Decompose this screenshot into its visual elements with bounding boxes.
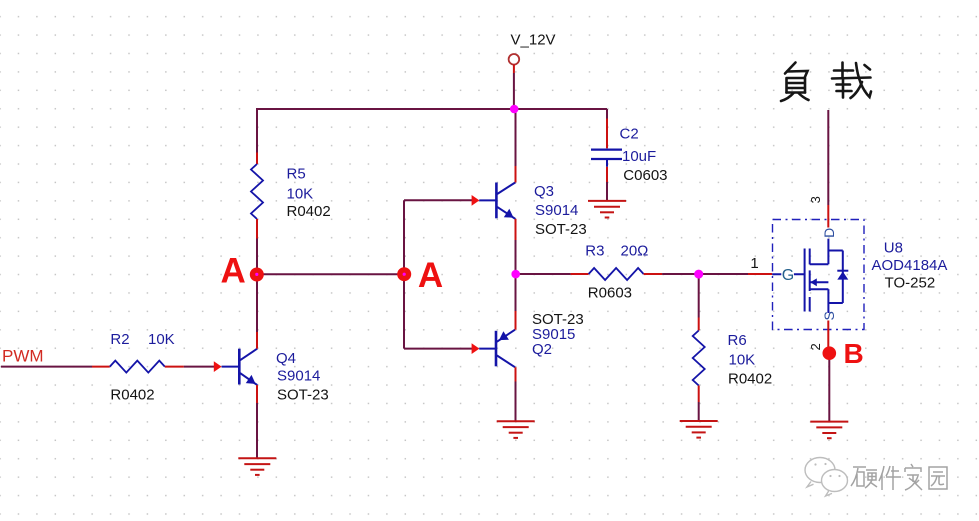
transistor Q3 symbol [479,182,515,219]
wire PWM input [1,366,92,368]
svg-text:1: 1 [750,255,758,272]
wire node A to Q4 collector [256,275,258,333]
svg-text:G: G [782,267,794,284]
svg-text:R2: R2 [110,331,129,348]
svg-text:SOT-23: SOT-23 [277,387,329,404]
resistor R6 top pin [698,318,700,331]
resistor R6 body [693,331,705,386]
node B dot [823,346,837,360]
svg-text:AOD4184A: AOD4184A [872,257,948,274]
pin 2 source pin [827,321,829,354]
resistor R5 top pin [256,153,258,165]
resistor R2 body [110,361,165,373]
svg-text:Q2: Q2 [532,341,552,358]
svg-text:PWM: PWM [2,346,44,365]
svg-text:C2: C2 [620,126,639,143]
capacitor C2 bottom pin [606,167,608,182]
resistor R2 right pin [165,366,184,368]
ground under B [810,422,848,439]
svg-text:R5: R5 [287,165,306,182]
watermark logo bubbles [805,458,848,497]
svg-text:10uF: 10uF [622,148,656,165]
wire node B to ground [828,353,830,421]
wire top bus [256,108,607,110]
svg-text:R6: R6 [728,332,747,349]
svg-text:R3: R3 [585,243,604,260]
wire V_12V stem [513,73,515,109]
wire bus to R5 [256,109,258,153]
mosfet U8 drain letter D [821,228,837,238]
svg-text:S: S [821,311,837,320]
mosfet U8 symbol [805,239,849,313]
svg-text:A: A [418,256,443,295]
svg-text:R0402: R0402 [728,370,772,387]
resistor R2 left pin [92,366,110,368]
junction dot mid node [511,270,520,279]
svg-text:10K: 10K [287,186,314,203]
svg-text:A: A [221,252,246,291]
wire bus to Q3 collector [515,109,517,166]
wire gate node down to R6 [698,274,700,318]
wire R5 to node A [256,239,258,275]
power port V_12V pin [513,65,515,73]
wire C2 to ground [606,182,608,201]
svg-text:U8: U8 [884,240,903,257]
ground under Q2 [497,421,535,438]
resistor R5 bottom pin [256,219,258,239]
wire node A vertical [403,200,405,348]
load text 载 [832,63,871,99]
wire mid node to R3 [516,273,571,275]
power port V_12V circle [509,54,520,65]
transistor Q4 symbol [222,349,258,386]
svg-text:SOT-23: SOT-23 [535,221,587,238]
junction dot V_12V/bus [510,105,519,114]
transistor Q2 collector pin [515,367,517,381]
transistor Q4 collector pin [256,332,258,349]
ground under R6 [680,421,718,438]
input arrow at Q4 base [214,361,222,372]
wire mid node to Q2 emitter [515,274,517,311]
wire node A rail [257,273,404,275]
svg-text:S9014: S9014 [535,202,578,219]
capacitor C2 plates [591,150,622,167]
svg-text:TO-252: TO-252 [885,275,936,292]
watermark text 硬件家园 [851,464,947,490]
pin 2 number [808,343,823,350]
svg-text:V_12V: V_12V [511,32,556,49]
svg-text:B: B [844,338,864,369]
ground under Q4 [238,458,276,475]
wire to Q3 base [404,199,472,201]
resistor R6 bottom pin [698,386,700,403]
wire bus corner to C2 [606,109,608,119]
svg-text:S9014: S9014 [277,368,320,385]
pin 1 gate pin lead [748,273,772,275]
capacitor C2 top pin [606,119,608,149]
svg-text:R0402: R0402 [110,386,154,403]
resistor R3 body [589,268,644,280]
svg-text:10K: 10K [148,331,175,348]
pin 3 number [808,196,823,203]
transistor Q2 symbol [479,330,515,368]
node A right dot [397,267,411,281]
svg-text:R0402: R0402 [287,203,331,220]
svg-text:D: D [821,228,837,238]
svg-text:Q3: Q3 [534,183,554,200]
transistor Q3 emitter pin [515,219,517,240]
junction dot gate node [694,270,703,279]
pin 3 drain pin [827,205,829,228]
resistor R3 right pin [644,273,663,275]
wire Q4 emitter to ground [256,403,258,458]
transistor Q3 collector pin [515,166,517,182]
input arrow at Q2 base [472,343,480,354]
svg-text:3: 3 [808,196,823,203]
svg-text:2: 2 [808,343,823,350]
wire R3 to gate node [662,273,699,275]
wire Q3 emitter to mid node [515,240,517,274]
load text 负 [781,63,809,102]
mosfet U8 gate letter G [772,273,804,275]
wire load to U8 drain [827,110,829,205]
mosfet U8 source letter S [821,311,837,320]
node A left dot [250,268,264,282]
resistor R5 body [251,164,263,219]
transistor Q4 emitter pin [256,385,258,403]
wire to Q2 base [404,348,472,350]
wire R2 to Q4 base [184,366,214,368]
ground under C2 [588,201,626,218]
transistor Q2 emitter pin [515,311,517,330]
wire gate node to U8 gate pin [699,273,748,275]
wire Q2 collector to ground [515,382,517,422]
input arrow at Q3 base [472,195,480,206]
wire R6 to ground [698,402,700,421]
svg-text:R0603: R0603 [588,285,632,302]
svg-text:10K: 10K [729,351,756,368]
svg-text:Q4: Q4 [276,350,296,367]
svg-text:20Ω: 20Ω [621,243,649,260]
svg-text:C0603: C0603 [623,167,667,184]
resistor R3 left pin [571,273,589,275]
mosfet U8 dashed body box [773,220,865,330]
